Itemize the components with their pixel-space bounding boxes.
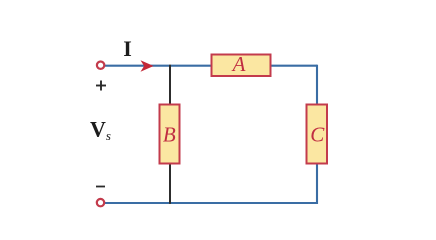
element B: box: [160, 105, 180, 164]
wire: top horizontal from element A right pin to top-right corner: [271, 65, 318, 67]
wire: top-left horizontal from source + terminal to node at x=170: [105, 65, 170, 67]
label +: source positive polarity: [96, 81, 106, 91]
label -: source negative polarity: [96, 186, 105, 188]
terminal: bottom-left source terminal (-) open circle: [97, 199, 104, 206]
wire: bottom horizontal from bottom-right corner to source - terminal: [105, 202, 318, 204]
svg-text:I: I: [123, 36, 132, 61]
current arrow: direction of I on top wire: [141, 60, 154, 72]
element C: box: [307, 105, 328, 164]
svg-text:Vs: Vs: [90, 117, 111, 143]
wire: right vertical from top-right corner to element C top pin: [316, 65, 318, 105]
wire: right vertical from element C bottom pin to bottom-right corner: [316, 164, 318, 205]
element A: box: [212, 55, 271, 77]
terminal: top-left source terminal (+) open circle: [97, 61, 104, 68]
wire: black vertical from top node down to element B top pin: [169, 65, 171, 105]
svg-text:C: C: [310, 123, 325, 147]
wire: top horizontal from node to element A left pin: [170, 65, 212, 67]
svg-text:A: A: [231, 52, 246, 76]
wire: black vertical from element B bottom pin down to bottom wire: [169, 164, 171, 204]
svg-text:B: B: [163, 123, 176, 147]
